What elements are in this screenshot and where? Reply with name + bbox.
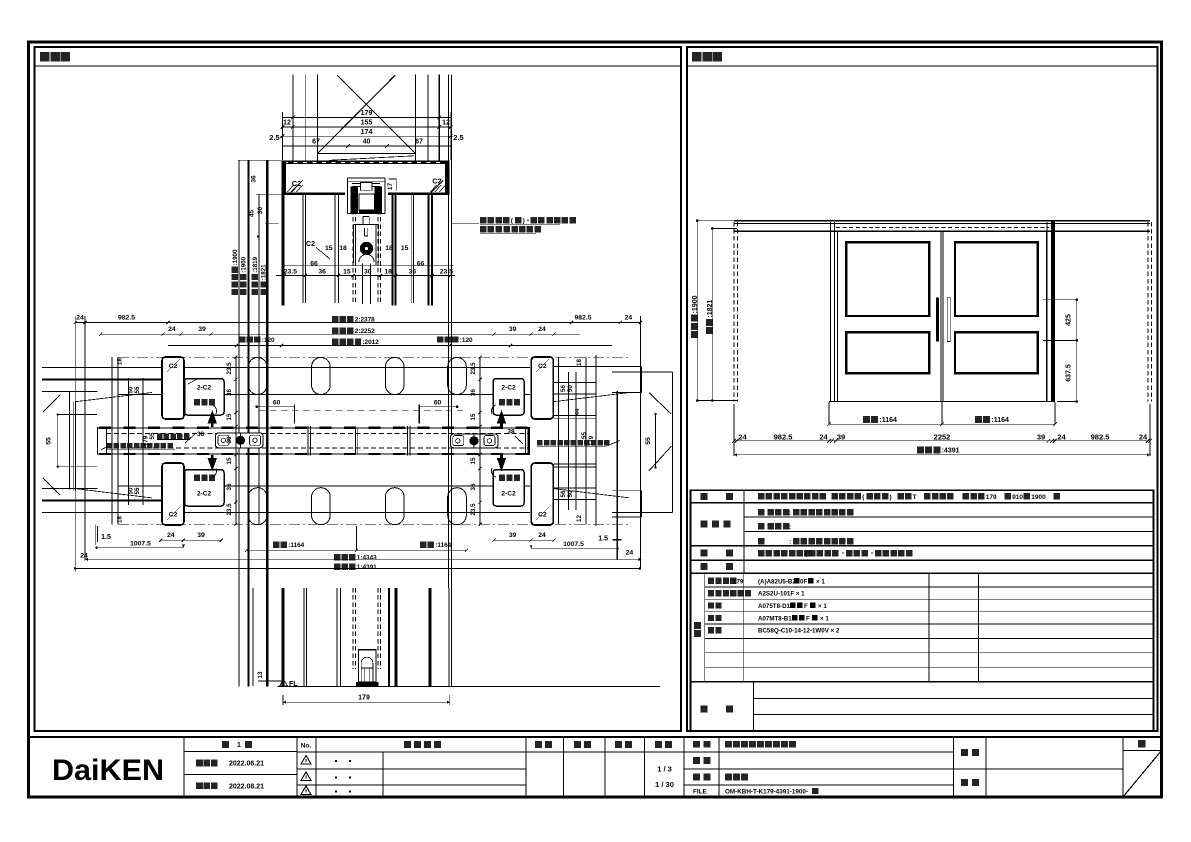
dimension shingaihaba 4391 bbox=[917, 446, 960, 454]
label shomenzu (front view) bbox=[692, 52, 702, 62]
elevation left door leaf bbox=[838, 231, 941, 401]
pocket post 2-C2 bottom left bbox=[185, 470, 225, 507]
dimension 60 right bbox=[419, 406, 457, 408]
plan door leaf hidden dashed bbox=[106, 433, 528, 435]
svg-text:2.5: 2.5 bbox=[453, 133, 463, 142]
elevation right door handle bbox=[947, 297, 950, 341]
track device right bbox=[450, 434, 498, 448]
svg-text:50: 50 bbox=[567, 490, 574, 497]
dimension line 1164 plan bbox=[247, 549, 467, 551]
svg-text:・: ・ bbox=[869, 552, 875, 558]
dimension 637.5 vertical right bbox=[1076, 340, 1078, 401]
svg-text:BC58Q-C10-14-12-1W0V × 2: BC58Q-C10-14-12-1W0V × 2 bbox=[758, 628, 840, 635]
dimension 1.5 left bbox=[95, 525, 97, 546]
plan wall studs top row bbox=[248, 358, 267, 395]
title col lines bbox=[183, 737, 185, 797]
right panel frame (front view) bbox=[687, 47, 1158, 731]
plan door track top line bbox=[97, 427, 530, 429]
dimension 55 right bbox=[654, 414, 656, 467]
dimension tobirahaba 1164 left bbox=[863, 416, 897, 424]
spec label hinban bbox=[694, 630, 701, 637]
top section mid verticals bbox=[281, 195, 284, 305]
pocket post 2-C2 top left bbox=[185, 379, 225, 416]
title meishou row bbox=[693, 741, 700, 748]
elevation top rail line bbox=[734, 220, 1150, 222]
svg-text:637.5: 637.5 bbox=[1066, 364, 1073, 382]
svg-text:(: ( bbox=[862, 494, 865, 501]
svg-text:179: 179 bbox=[986, 494, 997, 501]
svg-text::1900: :1900 bbox=[240, 256, 247, 272]
svg-text:C2: C2 bbox=[306, 241, 315, 248]
svg-text:0F: 0F bbox=[800, 578, 807, 585]
svg-text:982.5: 982.5 bbox=[1091, 432, 1110, 441]
dimension 1007.5 right bbox=[531, 547, 618, 549]
svg-text:1007.5: 1007.5 bbox=[563, 541, 584, 548]
svg-text:24: 24 bbox=[167, 532, 175, 539]
svg-text:× 1: × 1 bbox=[816, 578, 825, 585]
pocket post 2-C2 bottom right bbox=[493, 470, 524, 507]
svg-text:23.5: 23.5 bbox=[226, 362, 233, 375]
annotation leader top right bbox=[452, 223, 479, 225]
title shounin kakunin sakusei shukushaku headers bbox=[535, 741, 542, 748]
left side dim verticals bbox=[111, 357, 113, 524]
svg-text:15: 15 bbox=[325, 245, 333, 252]
svg-text:39: 39 bbox=[509, 532, 517, 539]
svg-text:1.5: 1.5 bbox=[598, 535, 608, 542]
svg-text::1821: :1821 bbox=[707, 300, 714, 318]
svg-text:982.5: 982.5 bbox=[118, 315, 135, 322]
title block frame bbox=[29, 737, 1162, 797]
plan left end break marks bbox=[43, 395, 60, 412]
top section pocket dashed verticals bbox=[352, 195, 354, 304]
svg-text:910: 910 bbox=[1012, 494, 1023, 501]
section cut arrow up left bbox=[208, 410, 217, 427]
svg-text:24: 24 bbox=[1139, 432, 1148, 441]
svg-text:67: 67 bbox=[312, 139, 320, 146]
plan stud face line upper bbox=[118, 393, 530, 395]
hanger wheel housing bbox=[352, 225, 354, 264]
svg-text:F: F bbox=[806, 615, 810, 622]
panel title band divider right bbox=[687, 65, 1158, 67]
svg-text:982.5: 982.5 bbox=[774, 432, 793, 441]
top section wall verticals right bbox=[414, 75, 416, 161]
svg-text:2:2378: 2:2378 bbox=[355, 317, 375, 324]
svg-text:A07MT8-B1: A07MT8-B1 bbox=[758, 615, 792, 622]
plan top wall line bbox=[42, 367, 530, 369]
bottom section dashed guides bbox=[352, 588, 354, 669]
svg-text:2.5: 2.5 bbox=[269, 133, 279, 142]
svg-text:24: 24 bbox=[538, 326, 546, 333]
svg-text:60: 60 bbox=[273, 400, 281, 407]
svg-text:1007.5: 1007.5 bbox=[130, 540, 151, 547]
dimension line above door head bbox=[284, 265, 453, 267]
plan annotation right one line bbox=[537, 440, 543, 446]
title seitei-bi bbox=[196, 760, 203, 767]
svg-text:A2S2U-101F × 1: A2S2U-101F × 1 bbox=[758, 591, 805, 598]
spec table row lines bbox=[691, 502, 1154, 504]
svg-text:67: 67 bbox=[415, 139, 423, 146]
elevation right jamb dashed bbox=[1147, 222, 1149, 402]
title kaitei-bi bbox=[196, 782, 203, 789]
svg-text:OM-KBH-T-K179-4391-1900-: OM-KBH-T-K179-4391-1900- bbox=[725, 789, 808, 796]
hanger roller assembly bbox=[345, 177, 388, 217]
svg-text::1819: :1819 bbox=[252, 256, 259, 272]
panel title band divider left bbox=[35, 65, 682, 67]
svg-text:18: 18 bbox=[117, 358, 124, 365]
svg-text:24: 24 bbox=[76, 315, 84, 322]
dimension 17 bracket bbox=[395, 179, 397, 191]
plan door leaf dividers bbox=[307, 426, 309, 456]
svg-text:2:2252: 2:2252 bbox=[355, 328, 375, 335]
svg-text:(: ( bbox=[511, 218, 514, 225]
section cut arrow down left bbox=[208, 455, 217, 472]
dimension shingaidaka 1900 vertical bbox=[696, 221, 698, 401]
svg-text:39: 39 bbox=[1037, 432, 1045, 441]
svg-text::120: :120 bbox=[262, 337, 275, 344]
svg-text:2-C2: 2-C2 bbox=[501, 385, 516, 392]
dimension line door widths bbox=[829, 423, 1055, 425]
svg-text:2-C2: 2-C2 bbox=[197, 385, 212, 392]
dimension 39 24 bottom right bbox=[494, 539, 554, 541]
plan right wall band lines bbox=[553, 414, 596, 416]
svg-text:38: 38 bbox=[507, 429, 515, 436]
dimension shingaihaba1 4343 bbox=[334, 554, 377, 562]
top section stud verticals thick bbox=[392, 195, 394, 305]
svg-text:× 1: × 1 bbox=[820, 615, 829, 622]
pocket post C2 top right bbox=[531, 357, 553, 419]
dimension 179 bottom bbox=[283, 701, 450, 703]
dimension 155 and 12 line bbox=[282, 126, 450, 128]
bottom section stud verticals bbox=[388, 588, 390, 686]
left panel frame (section view) bbox=[35, 47, 682, 731]
plan top wall line3 left bbox=[42, 390, 98, 392]
elevation left jamb dashed bbox=[733, 222, 735, 402]
svg-text:36: 36 bbox=[318, 268, 326, 275]
svg-text:): ) bbox=[889, 494, 891, 501]
elevation right pocket frame bbox=[1046, 222, 1048, 402]
svg-text:FILE: FILE bbox=[693, 789, 707, 796]
plan bottom wall lines left bbox=[42, 488, 98, 490]
svg-text:179: 179 bbox=[733, 578, 744, 585]
dimension tobirahaba 1164 right bbox=[975, 416, 1009, 424]
section cut arrow down right bbox=[497, 455, 506, 472]
svg-text:24: 24 bbox=[625, 315, 633, 322]
svg-text:F: F bbox=[804, 603, 808, 610]
top section outer verticals right pair bbox=[447, 75, 449, 305]
title page diagonal bbox=[1123, 751, 1162, 798]
spec value slim bar bbox=[758, 550, 765, 557]
hanger neck bbox=[362, 217, 364, 226]
svg-text:18: 18 bbox=[339, 245, 347, 252]
svg-text:C2: C2 bbox=[538, 512, 547, 519]
svg-text::: : bbox=[789, 510, 791, 517]
svg-text::120: :120 bbox=[460, 337, 473, 344]
top section wall verticals left bbox=[292, 75, 294, 161]
elevation rail bottom line bbox=[734, 230, 1150, 232]
svg-text:982.5: 982.5 bbox=[574, 315, 591, 322]
svg-text:)・: )・ bbox=[523, 218, 532, 225]
plan track thick dash overlay bottom bbox=[99, 453, 528, 455]
elevation rail dashed insert bbox=[836, 227, 1049, 229]
spec table column lines bbox=[743, 490, 745, 573]
svg-text:24: 24 bbox=[819, 432, 828, 441]
svg-text:C2: C2 bbox=[432, 177, 442, 186]
plan annotation left two lines bbox=[101, 447, 107, 451]
svg-text:30: 30 bbox=[364, 268, 372, 275]
svg-text:18: 18 bbox=[385, 245, 393, 252]
svg-text::1164: :1164 bbox=[435, 542, 451, 549]
pocket post 2-C2 top right bbox=[493, 379, 524, 416]
svg-text:18: 18 bbox=[117, 516, 124, 523]
svg-text:55: 55 bbox=[134, 487, 141, 494]
pocket post C2 top left bbox=[162, 357, 184, 419]
svg-text:38: 38 bbox=[197, 431, 205, 438]
head rail box bbox=[282, 161, 450, 164]
svg-text:39: 39 bbox=[197, 532, 205, 539]
title header dai-1-han bbox=[222, 741, 229, 748]
svg-text:FL: FL bbox=[289, 681, 298, 688]
plan track thick dash overlay top bbox=[99, 427, 528, 429]
svg-text:36: 36 bbox=[470, 389, 477, 396]
plan dim row1 line 2378 bbox=[75, 322, 640, 324]
svg-text:DaiKEN: DaiKEN bbox=[52, 754, 164, 787]
dimension tobirahaba 1164 plan right bbox=[420, 542, 452, 550]
dimension 24 39 bottom left bbox=[161, 539, 221, 541]
spec value series description bbox=[758, 493, 765, 500]
label danmenzu (section view) bbox=[40, 52, 50, 62]
height dimension verticals left bbox=[238, 159, 282, 161]
pocket post C2 bottom right bbox=[531, 463, 553, 525]
svg-text:425: 425 bbox=[1066, 314, 1073, 326]
top section cross brace X bbox=[337, 75, 415, 153]
svg-text:45: 45 bbox=[248, 210, 255, 218]
svg-text:36: 36 bbox=[409, 268, 417, 275]
plan top wall thick line left bbox=[42, 379, 162, 381]
FL label bbox=[280, 680, 288, 687]
svg-text:18: 18 bbox=[384, 268, 392, 275]
svg-text:A075T8-D1: A075T8-D1 bbox=[758, 603, 791, 610]
title sakusha cell bbox=[961, 749, 968, 756]
spec row panel finish bbox=[758, 509, 765, 516]
svg-text:56: 56 bbox=[560, 490, 567, 497]
svg-text:T: T bbox=[913, 494, 917, 501]
svg-text:23.5: 23.5 bbox=[226, 503, 233, 516]
hanger wheel bbox=[360, 242, 372, 254]
svg-text:1:4343: 1:4343 bbox=[357, 555, 377, 562]
svg-text:36: 36 bbox=[470, 483, 477, 490]
svg-text:179: 179 bbox=[361, 110, 373, 117]
svg-text::1821: :1821 bbox=[261, 264, 268, 280]
plan wall studs bottom row bbox=[248, 488, 267, 525]
svg-text:55: 55 bbox=[149, 432, 156, 439]
svg-text:1:4391: 1:4391 bbox=[357, 564, 377, 571]
svg-text::1164: :1164 bbox=[991, 417, 1009, 424]
elevation left pocket frame bbox=[830, 222, 832, 402]
svg-text:× 1: × 1 bbox=[818, 603, 827, 610]
svg-text:No.: No. bbox=[301, 743, 312, 750]
title row lines bbox=[184, 751, 297, 753]
elevation right door lower glass bbox=[955, 332, 1038, 373]
plan dim outer extension verticals bbox=[74, 316, 76, 572]
elevation left door lower glass bbox=[846, 332, 929, 373]
svg-text:15: 15 bbox=[343, 268, 351, 275]
svg-text:155: 155 bbox=[361, 120, 373, 127]
svg-text:15: 15 bbox=[226, 457, 233, 464]
svg-text:1: 1 bbox=[237, 742, 241, 749]
bottom section verticals cluster bbox=[252, 588, 254, 686]
svg-text::2012: :2012 bbox=[362, 339, 379, 346]
dimension tobiradaka 1821 vertical bbox=[711, 229, 713, 401]
plan chain line top bbox=[118, 356, 629, 358]
svg-text:2-C2: 2-C2 bbox=[197, 491, 212, 498]
spec label hiyou bbox=[701, 563, 708, 570]
elevation door bottom line bbox=[829, 401, 1055, 403]
svg-text:55: 55 bbox=[134, 386, 141, 393]
elevation right pocket dark stile bbox=[1051, 221, 1055, 402]
svg-text:24: 24 bbox=[168, 326, 176, 333]
section cut arrow up right bbox=[497, 410, 506, 427]
pocket post C2 bottom left bbox=[162, 463, 184, 525]
svg-text:13: 13 bbox=[257, 671, 264, 678]
dimension 1.5 right bbox=[616, 391, 618, 560]
svg-text:(A)A82U5-B2: (A)A82U5-B2 bbox=[758, 578, 796, 585]
track device left bbox=[215, 433, 263, 448]
spec part rows bbox=[708, 578, 714, 584]
svg-text:30: 30 bbox=[226, 436, 233, 443]
svg-text:50: 50 bbox=[567, 385, 574, 392]
svg-text:179: 179 bbox=[358, 695, 370, 702]
svg-text::1900: :1900 bbox=[232, 249, 239, 265]
spec label yoshiki bbox=[701, 493, 708, 500]
svg-text:2252: 2252 bbox=[934, 432, 951, 441]
plan right end verticals bbox=[641, 366, 643, 392]
floor guide detail bbox=[359, 650, 377, 682]
svg-text:・: ・ bbox=[840, 552, 846, 558]
spec label bikou bbox=[701, 706, 708, 713]
svg-text:39: 39 bbox=[198, 326, 206, 333]
svg-text:66: 66 bbox=[417, 260, 425, 267]
plan right end break marks bbox=[649, 393, 671, 414]
svg-text:2022.06.21: 2022.06.21 bbox=[229, 761, 264, 768]
svg-text:15: 15 bbox=[470, 413, 477, 420]
svg-text:15: 15 bbox=[401, 245, 409, 252]
elevation right door upper glass bbox=[955, 242, 1038, 316]
svg-text:23.5: 23.5 bbox=[470, 362, 477, 375]
plan chain line bottom bbox=[118, 523, 629, 525]
svg-text::1164: :1164 bbox=[288, 542, 304, 549]
dimension 55 left bbox=[57, 415, 59, 467]
dimension 67 40 67 line bbox=[282, 145, 451, 147]
svg-text:15: 15 bbox=[226, 413, 233, 420]
top section door verticals bbox=[362, 264, 364, 305]
svg-text:36: 36 bbox=[226, 483, 233, 490]
svg-text:39: 39 bbox=[509, 326, 517, 333]
svg-text:24: 24 bbox=[738, 432, 747, 441]
elevation left door handle bbox=[936, 297, 939, 341]
svg-text::4391: :4391 bbox=[942, 447, 960, 454]
svg-text:24: 24 bbox=[538, 532, 546, 539]
svg-text:1900: 1900 bbox=[1031, 494, 1046, 501]
dimension 60 left bbox=[257, 406, 295, 408]
height dim small marks bbox=[257, 235, 259, 237]
spec label shiage bbox=[701, 521, 708, 528]
svg-text:56: 56 bbox=[560, 385, 567, 392]
svg-text::: : bbox=[789, 524, 791, 531]
title kaitei-rireki header bbox=[404, 741, 411, 748]
svg-text::1164: :1164 bbox=[879, 417, 897, 424]
title hinban row bbox=[693, 757, 700, 764]
svg-text:39: 39 bbox=[837, 432, 845, 441]
dimension 179 line bbox=[282, 117, 450, 119]
spec row frame finish bbox=[758, 538, 765, 545]
dimension 1007.5 left bbox=[97, 547, 184, 549]
svg-text:36: 36 bbox=[250, 175, 257, 183]
plan door leaf end caps bbox=[96, 427, 98, 454]
svg-text:24: 24 bbox=[1057, 432, 1066, 441]
rotated height labels 1900 1821 bbox=[232, 249, 239, 295]
svg-text:40: 40 bbox=[363, 139, 371, 146]
svg-text:55: 55 bbox=[46, 437, 53, 445]
svg-text:1 / 3: 1 / 3 bbox=[657, 765, 672, 774]
svg-text:12: 12 bbox=[283, 120, 291, 127]
svg-text:23.5: 23.5 bbox=[470, 503, 477, 516]
dimension 174 and 2.5 line bbox=[280, 135, 453, 137]
plan stud centerline dashed bbox=[259, 409, 463, 411]
dimension tobirahaba 1164 plan left bbox=[273, 542, 305, 550]
elevation left door upper glass bbox=[846, 242, 929, 316]
svg-text:12: 12 bbox=[576, 515, 583, 522]
svg-text:36: 36 bbox=[226, 389, 233, 396]
svg-text:55: 55 bbox=[645, 437, 652, 445]
dimension extension verticals top bbox=[281, 112, 283, 160]
svg-text:30: 30 bbox=[257, 207, 264, 215]
plan dim row3 line 2012 bbox=[168, 344, 612, 346]
svg-text:60: 60 bbox=[434, 400, 442, 407]
svg-text:15: 15 bbox=[470, 457, 477, 464]
svg-text::: : bbox=[789, 539, 791, 546]
svg-text:1.5: 1.5 bbox=[101, 534, 111, 541]
svg-text:24: 24 bbox=[626, 550, 634, 557]
right side dim verticals bbox=[558, 357, 560, 524]
plan bottom right wall lines bbox=[553, 463, 596, 465]
svg-text:12: 12 bbox=[442, 120, 450, 127]
svg-text:18: 18 bbox=[576, 359, 583, 366]
dimension line door head lower bbox=[276, 275, 455, 277]
mohair label top left bbox=[194, 399, 200, 405]
plan dim row2 line 2252 bbox=[101, 333, 581, 335]
title revision dots bbox=[335, 760, 337, 762]
plan dim chain right vertical bbox=[479, 357, 481, 524]
FL line bbox=[278, 685, 661, 687]
plan stud face line lower bbox=[118, 485, 530, 487]
ceiling slope line bbox=[329, 156, 414, 161]
plan left end verticals bbox=[69, 391, 71, 489]
svg-text:66: 66 bbox=[310, 260, 318, 267]
head rail corner hatches bbox=[288, 185, 294, 192]
spec table frame bbox=[691, 490, 1154, 731]
svg-text:2-C2: 2-C2 bbox=[501, 491, 516, 498]
title page cell bbox=[1138, 740, 1146, 748]
spec label totte bbox=[701, 550, 708, 557]
elevation right door leaf bbox=[943, 231, 1046, 401]
annotation text mounting position bbox=[480, 217, 487, 224]
section line pair crossing plan bbox=[447, 304, 449, 588]
spec row mikiri finish bbox=[758, 523, 765, 530]
title zumei row bbox=[693, 774, 700, 781]
right side small dim line bbox=[553, 382, 596, 384]
svg-text::1900: :1900 bbox=[692, 295, 699, 313]
svg-text:17: 17 bbox=[387, 183, 394, 191]
